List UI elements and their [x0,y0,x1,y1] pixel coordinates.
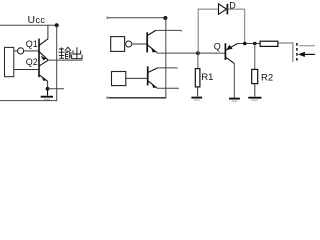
transistor Q (arrow into base bar) [225,43,237,63]
node: R2 junction dot [253,42,257,46]
wire: T2 collector stub [158,67,178,69]
svg-text:Q2: Q2 [26,57,38,67]
node: Ucc corner junction dot [55,23,59,27]
wire: R1 riser [197,53,199,69]
wire: Q upper rail to resistor [238,43,261,45]
wire: diode cathode down to emitter rail [227,9,244,43]
wire: T1 collector stub [156,29,182,31]
wire: gate2 to T2 base [126,77,148,79]
bubble on gate 1 [126,41,132,47]
wire: right bus down [165,18,167,98]
wire: R1 bottom [197,87,199,97]
transistor Q2 (diagonals; bar drawn above) [39,60,48,81]
wire: top rail [107,17,166,19]
resistor (series, horizontal) [260,41,278,46]
transistor T2 [148,66,158,88]
input box (driver stage) [5,47,14,76]
wire: Q1 collector riser to Ucc [47,25,49,39]
svg-text:Q: Q [214,41,221,51]
ground (under R2) [248,98,261,101]
wire: T1 emitter to Q base [157,52,225,54]
wire: Q1 base [24,50,39,52]
wire: bottom border of IC box [0,100,57,102]
出 [72,47,82,58]
node: emitter/ground junction dot [46,87,50,91]
svg-text:Ucc: Ucc [28,14,46,26]
connector: lower pin with arrow [298,52,315,57]
wire: Q collector drop [233,63,235,98]
inverter bubble [18,48,24,54]
transistor Q2 emitter drop [47,81,49,89]
wire: T2 emitter stub [157,87,179,89]
transistor T1 [147,30,157,52]
wire: R2 riser [254,44,256,70]
wire: resistor to connector corner [278,43,293,62]
wire: bottom stub to border [48,88,65,90]
transistor Q1 (bar shared with Q2) [39,39,48,78]
Ucc power rail (top border of IC box) [0,24,57,26]
wire: Q2 base [14,69,39,71]
node: diode junction dot [243,42,247,46]
label 输出 (drawn as paths) [59,47,82,59]
wire: output node to 输出 terminal [48,59,82,61]
svg-text:R2: R2 [261,72,273,83]
wire: R2 bottom [254,84,256,97]
connector: upper pin [299,45,315,47]
resistor R1 [195,69,200,87]
gate box 2 [112,72,126,86]
wire: box to inverting bubble [14,50,18,52]
gate box 1 [111,37,125,52]
wire: diode anode riser [198,9,218,53]
ground (under Q) [229,99,240,101]
node: top-right corner dot [163,16,167,20]
connector: dashed actuator bar [296,43,298,63]
wire: right border of IC box [56,25,58,100]
ground (left circuit) [41,89,53,100]
svg-text:R1: R1 [201,72,213,83]
ground (under R1) [191,98,202,101]
输 [59,47,65,58]
svg-text:Q1: Q1 [26,39,38,49]
diode D [219,4,228,15]
node: base/R1/diode junction dot [196,51,200,55]
resistor R2 [252,69,258,83]
wire: gate1 to T1 base [132,43,147,45]
wire: bottom rail [107,97,166,99]
